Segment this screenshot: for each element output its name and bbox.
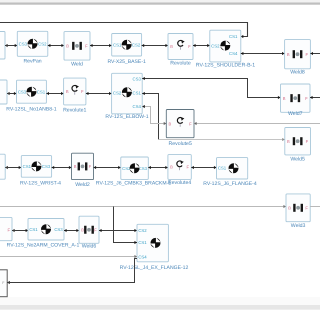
svg-text:CS1: CS1 (29, 227, 38, 232)
svg-text:RV-12S_J6_CMBK3_BRACKM-1: RV-12S_J6_CMBK3_BRACKM-1 (96, 180, 171, 186)
svg-text:Weld6: Weld6 (82, 243, 97, 249)
svg-text:CS1: CS1 (37, 89, 46, 94)
wire branch into CS1 (114, 207, 138, 243)
wire Weld7 out (310, 97, 320, 99)
svg-text:B: B (287, 139, 290, 144)
wire (94, 167, 121, 169)
body block RV-12S_WRIST-4 (20, 156, 61, 187)
joint block Revolute1 (63, 78, 86, 113)
svg-text:B: B (74, 164, 77, 169)
svg-text:Weld: Weld (71, 61, 83, 67)
svg-text:CS3: CS3 (133, 76, 142, 81)
svg-text:B: B (288, 206, 291, 211)
svg-text:CS4: CS4 (138, 255, 147, 260)
svg-text:CS4: CS4 (133, 104, 142, 109)
svg-text:B: B (66, 44, 69, 49)
wire (148, 167, 168, 169)
wire (193, 45, 210, 47)
svg-text:CS3: CS3 (19, 41, 28, 46)
svg-text:CS1: CS1 (23, 164, 32, 169)
svg-text:RV-12S_J6_FLANGE-4: RV-12S_J6_FLANGE-4 (203, 181, 257, 187)
svg-text:RV-12S_SHOULDER-B-1: RV-12S_SHOULDER-B-1 (196, 63, 255, 69)
wire (5, 167, 21, 169)
body block RV-12SL_No1ANB8-1 (6, 80, 56, 112)
block partial (left edge, row3) (0, 154, 5, 179)
svg-text:Revolute: Revolute (170, 60, 191, 66)
svg-text:CS3: CS3 (54, 227, 63, 232)
wire (64, 230, 79, 232)
svg-text:Weld7: Weld7 (288, 111, 303, 117)
svg-text:B: B (81, 227, 84, 232)
svg-text:CS3: CS3 (139, 166, 148, 171)
body block RV-12SL_J4_EX_FLANGE-12 (120, 224, 189, 271)
joint block Weld7 (281, 84, 311, 117)
body block RV-12S_No2ARM_COVER_A-1 (7, 219, 80, 249)
svg-text:CS2: CS2 (38, 41, 47, 46)
svg-text:CS2: CS2 (113, 91, 122, 96)
svg-text:RV-12SL_No1ANB8-1: RV-12SL_No1ANB8-1 (6, 106, 56, 112)
wire long thin net into CS4 (0, 256, 137, 258)
block partial (left edge, row5) (0, 270, 7, 297)
wire CS1 to Weld5 (142, 94, 158, 140)
joint block Revolute5 (166, 110, 194, 147)
wire (86, 93, 112, 95)
svg-text:Revolute1: Revolute1 (63, 107, 86, 113)
wire CS4 to Weld8 (241, 53, 285, 55)
svg-text:CS3: CS3 (42, 164, 51, 169)
svg-text:RV-12S_ELBOW-1: RV-12S_ELBOW-1 (105, 114, 148, 120)
svg-text:RV-12S_WRIST-4: RV-12S_WRIST-4 (20, 180, 61, 186)
joint block Weld2 (72, 153, 94, 188)
svg-text:CS3: CS3 (18, 89, 27, 94)
top grey separator band (0, 0, 320, 3)
svg-text:B: B (66, 89, 69, 94)
block partial (left edge, row1) (0, 32, 5, 60)
svg-text:CS1: CS1 (133, 91, 142, 96)
svg-text:B: B (170, 44, 173, 49)
svg-text:Weld3: Weld3 (291, 223, 306, 229)
wire (48, 45, 64, 47)
wire Revolute5 out (194, 123, 320, 125)
svg-text:Weld2: Weld2 (75, 182, 90, 188)
joint block Weld8 (285, 40, 311, 76)
wire long thin net to Weld3 (0, 206, 286, 208)
svg-text:CS2: CS2 (138, 228, 147, 233)
wire long feedback net into CS1 of RV-12S_SHOULDER-1 (0, 23, 248, 37)
wire (52, 167, 72, 169)
joint block Weld6 (79, 216, 99, 249)
svg-text:RevPan: RevPan (23, 59, 41, 65)
svg-text:CS1: CS1 (218, 166, 227, 171)
block partial (left edge, row4) (0, 217, 12, 240)
body block RV-12S_ELBOW-1 (105, 73, 148, 120)
bottom grey separator band (0, 297, 320, 305)
svg-text:CS1: CS1 (113, 42, 122, 47)
svg-text:CS1: CS1 (138, 240, 147, 245)
svg-text:B: B (170, 165, 173, 170)
joint block Weld5 (285, 128, 311, 163)
svg-text:Revolute4: Revolute4 (168, 180, 191, 186)
svg-text:B: B (169, 121, 172, 126)
body block RV-12S_SHOULDER-1 (196, 30, 255, 68)
wire Weld3 out (310, 206, 320, 208)
body block RV-12S_J6_FLANGE-4 (203, 158, 257, 187)
svg-text:RV-X25_BASE-1: RV-X25_BASE-1 (107, 59, 146, 65)
joint block Revolute (168, 34, 193, 67)
wire (142, 45, 168, 47)
svg-text:CS4: CS4 (229, 51, 238, 56)
svg-text:RV-12S_No2ARM_COVER_A-1: RV-12S_No2ARM_COVER_A-1 (7, 242, 80, 248)
wire (90, 45, 112, 47)
wire Weld8 out (310, 53, 320, 55)
joint block Weld (64, 32, 90, 68)
wire Weld6 to CS2 (99, 230, 137, 232)
svg-text:CS1: CS1 (229, 34, 238, 39)
svg-text:Weld5: Weld5 (290, 157, 305, 163)
svg-text:CS2: CS2 (211, 43, 220, 48)
body block RV-12S_J6_CMBK3_BRACKM-1 (96, 157, 171, 186)
wire (191, 167, 216, 169)
wire (7, 93, 17, 95)
wire (12, 230, 28, 232)
svg-text:RV-12SL_J4_EX_FLANGE-12: RV-12SL_J4_EX_FLANGE-12 (120, 265, 189, 271)
joint block Revolute4 (168, 155, 191, 186)
body block RevPan (17, 31, 48, 64)
wire CS3 to Weld7 (142, 79, 280, 98)
wire row5 up into CS4 branch (7, 259, 137, 283)
svg-text:Revolute5: Revolute5 (168, 141, 191, 147)
svg-text:B: B (283, 96, 286, 101)
wire (5, 45, 17, 47)
joint block Weld3 (286, 194, 310, 229)
block partial (left edge, row2) (0, 80, 7, 104)
wire (46, 93, 63, 95)
svg-text:Weld8: Weld8 (290, 70, 305, 76)
wire CS4 to Revolute5 (142, 107, 166, 124)
body block RV-X25_BASE-1 (107, 34, 146, 66)
svg-text:B: B (287, 52, 290, 57)
svg-text:CS2: CS2 (132, 42, 141, 47)
